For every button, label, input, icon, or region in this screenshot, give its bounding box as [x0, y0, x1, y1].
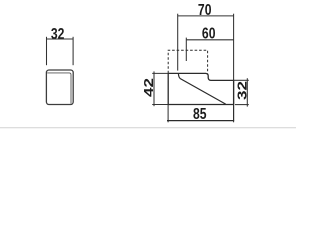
wire 85-ext-left — [167, 105, 169, 123]
node hidden-body-dashed — [168, 50, 207, 76]
wire 32r-ext-bottom — [235, 104, 249, 106]
wire 85-ext-right — [233, 105, 235, 123]
wire — [0, 127, 296, 129]
svg-text:60: 60 — [202, 25, 216, 43]
wire 32-dim-line — [47, 38, 74, 40]
wire 70-ext-left — [177, 14, 179, 71]
wire 70-60-ext-right — [233, 14, 235, 120]
wire 32-ext-right — [72, 37, 74, 65]
wire 42-dim-line — [153, 71, 155, 106]
wire 42-ext-top — [152, 72, 168, 74]
wire 32r-ext-top — [234, 79, 249, 81]
node front-view-outer — [46, 70, 73, 105]
wire 85-dim-line — [167, 120, 234, 122]
svg-text:85: 85 — [193, 105, 207, 123]
wire 70-dim-line — [178, 15, 234, 17]
wire 32-ext-left — [46, 37, 48, 65]
node front-view-inner — [47, 73, 71, 104]
wire 32r-dim-line — [246, 78, 248, 106]
wire 42-ext-bottom — [152, 104, 168, 106]
svg-text:70: 70 — [198, 1, 212, 19]
wire 60-ext-left — [185, 38, 187, 61]
wire 60-dim-line — [186, 39, 233, 41]
svg-text:32: 32 — [51, 25, 65, 43]
node bracket-outline — [168, 73, 233, 104]
node bracket-diagonal — [178, 74, 225, 105]
